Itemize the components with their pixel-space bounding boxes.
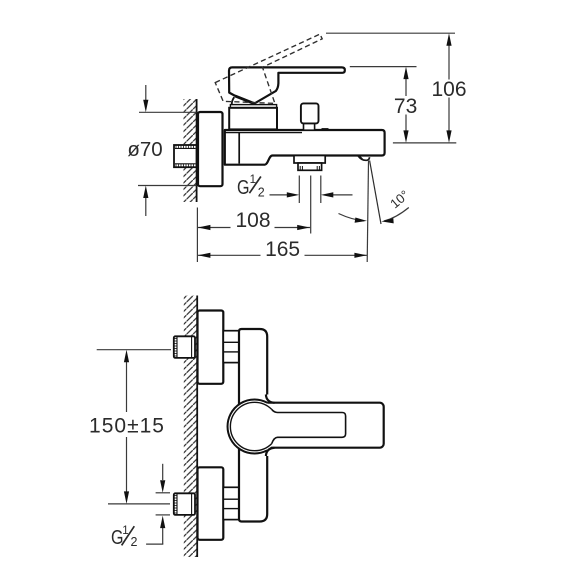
G1/2 arrows	[270, 192, 353, 197]
svg-text:ø70: ø70	[127, 138, 162, 161]
upper supply nut	[174, 336, 195, 358]
dim 108	[197, 209, 310, 232]
outlet extension lines	[299, 176, 321, 234]
lower union connector	[223, 487, 239, 519]
bottom extension line for 73/106	[393, 142, 456, 144]
G1/2 dim (bottom drawing)	[146, 464, 170, 544]
handle (solid position)	[229, 67, 345, 104]
aerator centerline / 165 extension	[367, 161, 368, 262]
10 degree spray angle	[339, 161, 412, 225]
spout top edge tick	[322, 128, 329, 131]
dim 106 top extension line	[326, 32, 455, 34]
left extension line (wall face)	[196, 208, 198, 263]
shower outlet (bottom thread)	[294, 156, 325, 171]
svg-text:150±15: 150±15	[89, 415, 165, 438]
svg-text:2: 2	[131, 535, 138, 549]
svg-text:73: 73	[394, 95, 417, 118]
svg-text:108: 108	[235, 209, 270, 232]
G1/2 nut (side view)	[174, 145, 197, 167]
G1/2 label (top drawing)	[237, 174, 265, 199]
dim 73 extension line (lever top)	[350, 66, 417, 68]
handle (dashed alternate position)	[215, 34, 322, 103]
lower wall plate	[198, 467, 224, 540]
dim 165	[197, 238, 367, 261]
svg-text:106: 106	[431, 78, 466, 101]
handle knob outer arc	[228, 400, 268, 454]
cartridge cap	[230, 105, 276, 108]
lever top-surface detail	[272, 409, 346, 443]
cartridge block	[229, 108, 277, 130]
lever (front view outer outline)	[258, 403, 384, 448]
upper wall plate	[198, 311, 224, 384]
inner knob arc	[230, 402, 271, 450]
diverter knob	[301, 103, 319, 130]
lower supply nut	[174, 493, 195, 515]
dim 106	[431, 33, 466, 143]
wall (hatched)	[184, 99, 197, 202]
handle knob circle (white mask)	[228, 400, 280, 452]
dim ø70	[127, 85, 196, 216]
vertical body bar	[239, 329, 267, 522]
dim 73	[394, 67, 417, 143]
svg-text:G: G	[237, 177, 250, 199]
wall plate (escutcheon, side view)	[198, 112, 223, 186]
ø70 extension lines and arrows	[139, 111, 197, 113]
svg-text:165: 165	[265, 238, 300, 261]
faucet body + spout (side view)	[225, 130, 385, 165]
wall (hatched)	[184, 296, 197, 558]
bar-to-lever fillets	[266, 395, 275, 403]
svg-text:2: 2	[258, 185, 265, 199]
aerator	[358, 156, 369, 161]
G1/2 label (bottom drawing)	[111, 525, 138, 549]
dim 150±15	[89, 350, 171, 504]
upper union connector	[223, 331, 239, 363]
